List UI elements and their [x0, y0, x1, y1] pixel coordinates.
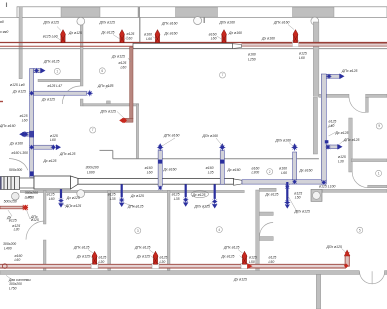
label B3 c	[249, 256, 257, 260]
column at (198,21)	[194, 17, 202, 25]
svg-text:300x200: 300x200	[25, 191, 38, 195]
svg-text:L60: L60	[22, 118, 28, 122]
supply outlet arrow top-right	[340, 74, 345, 80]
main duct large section	[34, 176, 71, 189]
room circle (379,126)	[376, 123, 382, 129]
label stub c1	[30, 215, 38, 219]
svg-text:L750: L750	[26, 196, 34, 200]
niche stub y212	[259, 212, 273, 216]
label E2 a	[99, 20, 116, 24]
svg-text:ДПх ø160: ДПх ø160	[163, 134, 180, 138]
svg-text:ДПх ø125: ДПх ø125	[97, 84, 114, 88]
svg-text:ø160: ø160	[248, 53, 256, 57]
label riser160 c	[163, 168, 177, 172]
door arc room 1	[352, 172, 368, 188]
label left a	[10, 83, 25, 87]
wall y95 left segment	[319, 94, 349, 97]
room circle (57,71)	[54, 68, 60, 74]
label E4 a	[219, 21, 236, 25]
supply drop x121	[121, 184, 123, 197]
label E3 b	[164, 32, 178, 36]
supply duct vertical right	[321, 74, 326, 181]
label drop61 a	[47, 193, 55, 197]
supply drop x186	[185, 184, 187, 197]
wall segment top 3	[293, 7, 335, 17]
label drop186 c	[192, 193, 206, 197]
label B1 d	[99, 260, 105, 264]
top outer wall band	[17, 7, 387, 18]
label edge y34	[0, 30, 8, 34]
svg-text:L50: L50	[269, 260, 275, 264]
supply riser x160 with up arrow	[158, 151, 162, 187]
label below duct a	[25, 191, 38, 195]
svg-text:L35: L35	[110, 197, 116, 201]
svg-text:300x200: 300x200	[9, 282, 22, 286]
red dash left edge y101	[0, 101, 3, 103]
svg-text:Дх ø125: Дх ø125	[265, 192, 279, 196]
label E5 a	[273, 21, 290, 25]
label B3 g	[233, 277, 247, 281]
exhaust grille B2	[153, 251, 158, 264]
room circle (270,172)	[267, 169, 273, 175]
wall x350 vertical right	[349, 118, 352, 172]
supply duct gray horizontal	[242, 180, 326, 184]
svg-text:ø125 Lø0: ø125 Lø0	[43, 35, 58, 39]
wall segment top 1	[61, 7, 100, 17]
svg-text:ø125: ø125	[269, 256, 277, 260]
label B2 b	[136, 254, 150, 258]
lower-right corridor wall y190	[322, 189, 387, 192]
label E2 b	[101, 30, 115, 34]
wall y159 room 9 bottom	[351, 159, 387, 162]
label red riser a	[111, 54, 125, 58]
partition x168	[167, 191, 170, 271]
svg-text:ø160: ø160	[279, 167, 287, 171]
label L300 b	[252, 171, 260, 175]
lower rooms top wall y190	[20, 190, 244, 192]
room circle (138,231)	[135, 228, 141, 234]
label above AHU	[43, 159, 57, 163]
svg-text:х яя0: х яя0	[0, 30, 8, 34]
label B1 c	[99, 256, 107, 260]
door arc bottom-left	[26, 221, 45, 240]
label drop285 b	[294, 191, 302, 195]
svg-text:Дх ø125: Дх ø125	[101, 30, 115, 34]
wall jog y150	[100, 149, 113, 151]
label right duct f	[338, 160, 344, 164]
label left b	[12, 90, 26, 94]
wall tick x204	[203, 17, 205, 23]
label branch2 b	[50, 138, 56, 142]
door arc near AHU	[9, 159, 28, 171]
duct end cap	[233, 44, 242, 49]
svg-text:ø160: ø160	[144, 33, 152, 37]
svg-text:Дх ø125: Дх ø125	[130, 194, 144, 198]
svg-text:ø125: ø125	[20, 114, 28, 118]
svg-text:ø125: ø125	[160, 256, 168, 260]
svg-text:Дх ø125: Дх ø125	[12, 90, 26, 94]
damper at duct entry	[30, 171, 34, 176]
svg-text:ø160: ø160	[209, 33, 217, 37]
label red riser b	[119, 61, 127, 65]
svg-text:L30: L30	[160, 260, 166, 264]
svg-text:L50: L50	[295, 196, 301, 200]
svg-text:ø160: ø160	[206, 166, 214, 170]
svg-text:L60: L60	[49, 197, 55, 201]
label E3 c	[144, 33, 152, 37]
supply outlet arrow top elbow	[41, 68, 46, 74]
svg-text:3: 3	[137, 229, 139, 233]
svg-text:1: 1	[378, 172, 380, 176]
damper on duct at y134	[29, 131, 34, 138]
svg-text:Дх ø125: Дх ø125	[233, 277, 247, 281]
label stub b1	[6, 215, 11, 219]
label drop123 a	[108, 193, 116, 197]
svg-text:L750: L750	[9, 287, 17, 291]
label B2 a	[134, 246, 151, 250]
label E1 c	[68, 31, 82, 35]
svg-text:ø125: ø125	[108, 193, 116, 197]
red bottom duct band	[0, 264, 346, 268]
svg-text:ø125: ø125	[249, 256, 257, 260]
branch1 outlet star	[86, 90, 93, 97]
label up-arrow160	[163, 134, 180, 138]
label E2 c	[127, 32, 135, 36]
label riser294 c	[299, 169, 313, 173]
label stub d	[12, 224, 20, 228]
bottom exhaust grilles with pedestals	[91, 263, 98, 269]
label system c	[9, 287, 17, 291]
room circle (379,173)	[376, 170, 382, 176]
door post x366	[366, 97, 369, 112]
svg-text:L60: L60	[211, 37, 217, 41]
svg-text:Дх ø125: Дх ø125	[335, 131, 349, 135]
label riser221 b	[208, 171, 214, 175]
svg-text:500x300: 500x300	[9, 168, 22, 172]
svg-text:L35: L35	[208, 171, 214, 175]
left outlet arrow	[19, 131, 25, 137]
label stub b2	[9, 219, 17, 223]
svg-text:Дх ø125: Дх ø125	[76, 254, 90, 258]
label left arrow b	[9, 142, 23, 146]
supply duct top stub with arrow	[326, 74, 339, 78]
svg-text:ДПх ø160: ДПх ø160	[161, 21, 178, 25]
label branch1 bottom	[41, 97, 55, 101]
label right duct b	[329, 124, 335, 128]
room 1 bottom wall y186	[368, 185, 387, 188]
exhaust grille B1	[92, 251, 97, 264]
svg-text:7: 7	[92, 128, 94, 132]
label x31 duct	[12, 151, 29, 155]
label right duct d	[343, 138, 360, 142]
svg-text:500x150: 500x150	[4, 199, 17, 203]
svg-text:Для системы: Для системы	[8, 278, 31, 282]
column at (81,21)	[77, 17, 85, 25]
label duct mid a	[20, 114, 28, 118]
supply drop x287	[286, 182, 288, 201]
label riser160 b	[147, 171, 153, 175]
svg-text:Дх ø125: Дх ø125	[136, 254, 150, 258]
label riser294 b	[281, 171, 287, 175]
svg-text:Дх ø160: Дх ø160	[9, 142, 23, 146]
room circle (93,130)	[90, 127, 96, 133]
red riser duct x131	[130, 47, 133, 119]
column (15,196)	[12, 192, 20, 200]
svg-text:Дх ø125: Дх ø125	[192, 193, 206, 197]
red riser bottom right	[345, 256, 349, 267]
wall post x108	[107, 101, 111, 104]
label E5 b	[261, 36, 275, 40]
exhaust grille E3	[155, 30, 160, 43]
svg-text:ø125: ø125	[9, 219, 17, 223]
wall line y159 above main duct	[113, 158, 319, 160]
label drop285 d	[294, 210, 311, 214]
red duct band right part	[242, 43, 387, 46]
double door left leaf	[360, 271, 373, 284]
partition x44 lower	[43, 240, 46, 271]
svg-text:L400: L400	[4, 246, 12, 250]
svg-text:ДПх ø125: ДПх ø125	[194, 205, 211, 209]
svg-text:7: 7	[222, 73, 224, 77]
svg-text:300x200: 300x200	[3, 242, 16, 246]
label below duct b	[26, 196, 34, 200]
label drop61 d	[65, 204, 82, 208]
niche stub y237	[259, 237, 273, 241]
room circle (102,71)	[99, 68, 105, 74]
label red riser c	[121, 65, 127, 69]
label B3 d	[249, 260, 255, 264]
label B2 c	[160, 256, 168, 260]
svg-text:ДПх ø125: ДПх ø125	[343, 138, 360, 142]
label branch2 c	[59, 152, 76, 156]
svg-text:ДПх ø125: ДПх ø125	[43, 20, 60, 24]
svg-text:Дх ø160: Дх ø160	[228, 31, 242, 35]
svg-text:4: 4	[218, 228, 220, 232]
left-pointing outlet y134	[23, 132, 30, 136]
supply riser x222 with up arrow	[220, 151, 224, 185]
svg-text:ДПх ø125: ДПх ø125	[134, 246, 151, 250]
svg-text:ø125: ø125	[294, 191, 302, 195]
label E1 b	[43, 35, 58, 39]
left outer wall	[19, 7, 22, 79]
svg-text:ø125 L100: ø125 L100	[319, 185, 336, 189]
svg-text:L60: L60	[147, 171, 153, 175]
niche door arc	[260, 223, 274, 237]
svg-text:ø125: ø125	[299, 51, 307, 55]
svg-text:L30: L30	[14, 227, 20, 231]
label duct L250 a	[248, 53, 256, 57]
AHU / fan unit with flex connector	[0, 177, 20, 190]
supply drop x61	[60, 189, 62, 198]
label E3 a	[161, 21, 178, 25]
label duct size a	[86, 165, 99, 169]
corner star right duct	[321, 180, 326, 185]
label BL c	[15, 254, 23, 258]
leader lines	[6, 275, 14, 281]
top corridor duct (white)	[133, 43, 233, 48]
branch 1 y93	[34, 91, 87, 95]
room circle (222,75)	[220, 72, 226, 78]
corridor divider wall x140	[139, 17, 141, 48]
svg-text:ДПх ø125: ДПх ø125	[127, 205, 144, 209]
label E4 d	[211, 37, 217, 41]
label red elbow	[100, 109, 117, 113]
bottom wall y270	[0, 271, 359, 275]
exhaust grille E1	[61, 30, 66, 43]
svg-text:ø125: ø125	[119, 61, 127, 65]
bottom corridor wall x318	[316, 275, 321, 309]
label E4 b	[228, 31, 242, 35]
label drop186 a	[172, 193, 180, 197]
room circle (360,230)	[357, 227, 363, 233]
svg-text:Дх ø125: Дх ø125	[111, 54, 125, 58]
svg-text:L60: L60	[121, 65, 127, 69]
red elbow with left arrow	[123, 118, 134, 122]
top elbow stub	[34, 69, 41, 73]
svg-text:Дх ø125: Дх ø125	[221, 254, 235, 258]
label elbow top	[43, 60, 60, 64]
label branch2 a	[50, 134, 58, 138]
svg-text:ø160: ø160	[15, 254, 23, 258]
svg-text:ДПх ø125: ДПх ø125	[341, 69, 358, 73]
wall x315 vertical	[313, 22, 319, 96]
main duct narrow section	[78, 178, 234, 184]
label B3 f	[269, 260, 275, 264]
label B3 e	[269, 256, 277, 260]
band bottom line extension left	[0, 16, 19, 18]
label stub c2	[31, 218, 39, 222]
svg-text:ø160: ø160	[145, 166, 153, 170]
label B1 b	[76, 254, 90, 258]
label B1 a	[73, 246, 90, 250]
wall x315 lower section	[313, 97, 317, 154]
svg-text:ø125: ø125	[338, 155, 346, 159]
red star arrow head bottom-right	[344, 250, 350, 256]
exhaust grille E2	[120, 30, 125, 43]
svg-text:Дх ø125: Дх ø125	[68, 31, 82, 35]
label E3 d	[146, 37, 152, 41]
svg-text:ДПх ø125: ДПх ø125	[326, 245, 343, 249]
left supply vertical duct	[30, 69, 34, 178]
wall y80 room A bottom	[38, 79, 81, 82]
svg-text:2: 2	[269, 170, 271, 174]
svg-text:ДПх ø160: ДПх ø160	[0, 124, 16, 128]
door arc room A	[62, 86, 80, 104]
niche top stub	[259, 188, 276, 191]
svg-text:Дх ø160: Дх ø160	[227, 168, 241, 172]
label drop123 b	[110, 197, 116, 201]
label BL a	[3, 242, 16, 246]
svg-text:L40: L40	[329, 124, 335, 128]
svg-text:L30: L30	[338, 160, 344, 164]
svg-text:ø160: ø160	[252, 166, 260, 170]
label right duct a	[329, 120, 337, 124]
bottom wall right stub	[385, 271, 387, 275]
supply riser x294.6 with up arrow	[293, 152, 297, 180]
label edge y24	[0, 20, 4, 24]
svg-text:L60: L60	[127, 37, 133, 41]
red stub mid-left duct	[0, 206, 23, 209]
red duct second line left part	[0, 45, 133, 47]
wall x81 lower stub	[80, 99, 83, 106]
svg-text:5: 5	[359, 228, 361, 232]
branch2 outlet arrow	[56, 144, 61, 150]
blue damper on right duct y141	[325, 140, 329, 143]
label AHU size	[9, 168, 22, 172]
red duct end circle	[3, 264, 8, 269]
label BL b	[4, 246, 12, 250]
red tee arrow at B3	[247, 264, 253, 269]
double door right leaf	[372, 271, 385, 284]
svg-text:я0: я0	[0, 20, 4, 24]
branch 2 y147	[34, 145, 53, 149]
label stub a	[4, 199, 17, 203]
exhaust grille B3	[242, 251, 247, 264]
exhaust grille E4	[222, 30, 227, 43]
label right duct L100	[319, 185, 336, 189]
svg-text:L250: L250	[248, 57, 256, 61]
svg-text:ДПх ø125: ДПх ø125	[73, 246, 90, 250]
label E5 c	[299, 51, 307, 55]
label drop186 b	[174, 197, 180, 201]
main duct end reducer	[234, 179, 243, 185]
label drop285 a	[265, 192, 279, 196]
label system a	[8, 278, 31, 282]
wall segment top 2	[176, 7, 218, 17]
svg-text:Дх ø160: Дх ø160	[299, 169, 313, 173]
label right duct c	[335, 131, 349, 135]
svg-text:Дх ø125: Дх ø125	[41, 97, 55, 101]
svg-text:Дх ø160: Дх ø160	[163, 168, 177, 172]
svg-text:L60: L60	[50, 138, 56, 142]
label riser160 a	[145, 166, 153, 170]
partition x44 upper	[43, 191, 46, 225]
svg-text:ø125: ø125	[99, 256, 107, 260]
label branch1 outlet	[97, 84, 114, 88]
label duct L250 b	[248, 57, 256, 61]
svg-text:1: 1	[56, 70, 58, 74]
svg-text:L60: L60	[15, 258, 21, 262]
label B3 a	[223, 246, 240, 250]
label drop123 d	[127, 205, 144, 209]
label bottom-right riser	[326, 245, 343, 249]
svg-text:ДПх ø125: ДПх ø125	[294, 210, 311, 214]
svg-text:L60: L60	[299, 56, 305, 60]
wall x137 vertical	[136, 104, 138, 159]
svg-text:ДПх ø160: ДПх ø160	[219, 21, 236, 25]
label drop61 b	[49, 197, 55, 201]
label branch1 top	[48, 84, 64, 88]
right outlet arrow y146	[338, 144, 343, 150]
svg-text:ДПх ø160: ДПх ø160	[202, 134, 219, 138]
svg-text:L60: L60	[281, 171, 287, 175]
label stub top	[25, 195, 32, 199]
svg-text:L600: L600	[87, 170, 95, 174]
label riser294 a	[279, 167, 287, 171]
label B3 b	[221, 254, 235, 258]
svg-text:L60: L60	[146, 37, 152, 41]
label up-arrow222	[202, 134, 219, 138]
label duct mid b	[22, 118, 28, 122]
label riser221 a	[206, 166, 214, 170]
wall jog vertical x113	[112, 150, 114, 158]
pedestal E5	[293, 40, 299, 46]
svg-text:ДПх ø125: ДПх ø125	[100, 109, 117, 113]
label E5 d	[299, 56, 305, 60]
wall tick x138	[138, 7, 140, 18]
svg-text:ø125: ø125	[47, 193, 55, 197]
wall x81 upper	[80, 25, 83, 86]
